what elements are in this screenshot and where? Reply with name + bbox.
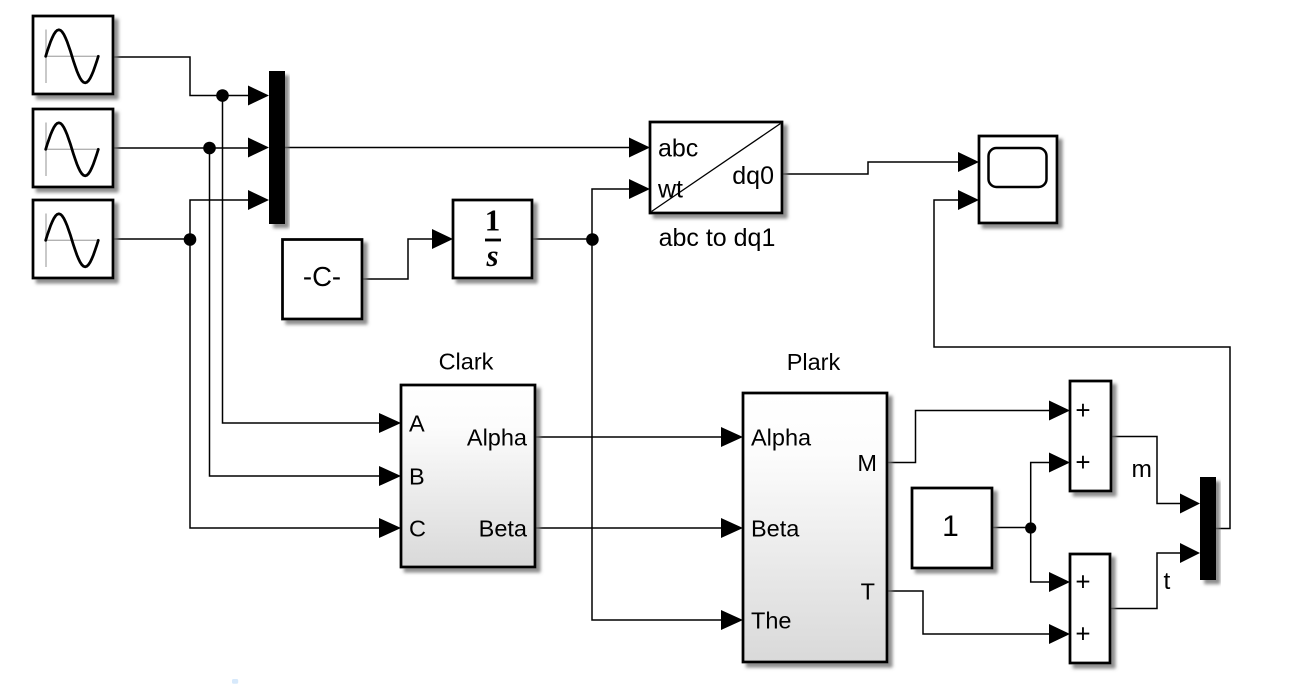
arrow mux in3 (248, 190, 269, 210)
svg-text:Plark: Plark (787, 349, 841, 375)
sine wave source 1 (33, 16, 113, 94)
arrow Plark Beta (721, 518, 743, 538)
svg-text:T: T (861, 579, 875, 605)
wire Clark Alpha to Plark Alpha (535, 436, 732, 438)
arrow Clark A (379, 413, 401, 433)
arrow sum1 in1 (1049, 401, 1070, 421)
constant -C- block (283, 240, 363, 320)
svg-text:+: + (1075, 567, 1090, 597)
arrow abc in (629, 138, 650, 158)
wire mux output to abc input (285, 147, 639, 149)
arrow sum1 in2 (1049, 453, 1070, 473)
abc to dq transform block (650, 122, 782, 213)
wire branch to Clark A (223, 96, 383, 424)
wire -C- to integrator (362, 239, 442, 279)
wire Plark M to sum1 in1 (887, 411, 1053, 463)
wire Plark T to sum2 in2 (887, 591, 1053, 634)
svg-text:s: s (485, 238, 498, 273)
wire abc-dq output to scope in1 (782, 162, 968, 174)
wire sine2 to mux (113, 147, 252, 149)
svg-text:The: The (751, 608, 792, 634)
wire sine3 stub (113, 238, 190, 240)
svg-text:-C-: -C- (303, 261, 341, 292)
svg-text:+: + (1075, 447, 1090, 477)
mux1 bar (269, 71, 285, 224)
wire to sum2 in1 (1031, 528, 1053, 583)
svg-text:Beta: Beta (479, 516, 528, 542)
arrow wt in (629, 179, 650, 199)
svg-text:t: t (1164, 568, 1171, 595)
svg-text:C: C (409, 516, 426, 542)
arrow scope in1 (958, 152, 979, 172)
arrow sum2 in1 (1049, 572, 1070, 592)
wire to sum1 in2 (1031, 463, 1053, 528)
arrow Clark C (379, 518, 401, 538)
wire to wt input (592, 189, 639, 239)
svg-text:A: A (409, 411, 425, 437)
svg-text:B: B (409, 464, 425, 490)
arrow sum2 in2 (1049, 624, 1070, 644)
node junction integrator out (586, 233, 599, 246)
node junction sine2 (203, 142, 216, 155)
arrow integrator in (432, 229, 453, 249)
svg-text:wt: wt (657, 176, 683, 204)
arrow mux in1 (248, 86, 269, 106)
arrow Plark The (721, 610, 743, 630)
svg-text:Clark: Clark (439, 349, 494, 375)
arrow mux in2 (248, 138, 269, 158)
integrator 1/s block (453, 200, 532, 278)
arrow Clark B (379, 466, 401, 486)
wire integrator output (532, 238, 592, 240)
scope block (979, 136, 1057, 223)
svg-text:Alpha: Alpha (467, 425, 528, 451)
arrow mux2 in2 (1180, 543, 1200, 563)
wire Clark Beta to Plark Beta (535, 527, 732, 529)
wire sine3 riser to mux and Clark C (190, 200, 382, 528)
Clark subsystem block (401, 385, 535, 567)
svg-text:M: M (857, 450, 877, 476)
mux2 bar (1200, 477, 1216, 580)
sine wave source 2 (33, 109, 113, 187)
node junction sine1 (216, 89, 229, 102)
svg-text:Alpha: Alpha (751, 425, 812, 451)
sum1 block (1070, 381, 1111, 491)
node junction sine3 (184, 233, 197, 246)
node junction constant out (1025, 522, 1036, 533)
svg-text:m: m (1132, 456, 1152, 483)
wire sum2 out to mux2 in2 (1110, 553, 1182, 609)
svg-text:1: 1 (942, 510, 959, 543)
svg-text:abc to dq1: abc to dq1 (659, 224, 776, 252)
Plark subsystem block (743, 393, 887, 662)
arrow scope in2 (958, 190, 979, 210)
wire branch to Clark B (210, 148, 383, 476)
svg-text:abc: abc (658, 135, 698, 163)
svg-text:Beta: Beta (751, 516, 800, 542)
wire sum1 out to mux2 in1 (1111, 437, 1182, 504)
wire mux2 out to scope in2 (934, 200, 1230, 529)
sine wave source 3 (33, 200, 113, 278)
constant 1 block (912, 488, 992, 568)
annotation blue dot (232, 679, 238, 684)
arrow mux2 in1 (1180, 494, 1200, 514)
svg-text:1: 1 (485, 203, 501, 238)
svg-text:+: + (1075, 395, 1090, 425)
svg-text:dq0: dq0 (732, 162, 774, 190)
wire constant 1 output (992, 527, 1031, 529)
wire sine1 to mux (113, 57, 252, 96)
svg-text:+: + (1075, 619, 1090, 649)
wire to Plark The input (592, 239, 732, 620)
arrow Plark Alpha (721, 427, 743, 447)
sum2 block (1070, 554, 1110, 663)
